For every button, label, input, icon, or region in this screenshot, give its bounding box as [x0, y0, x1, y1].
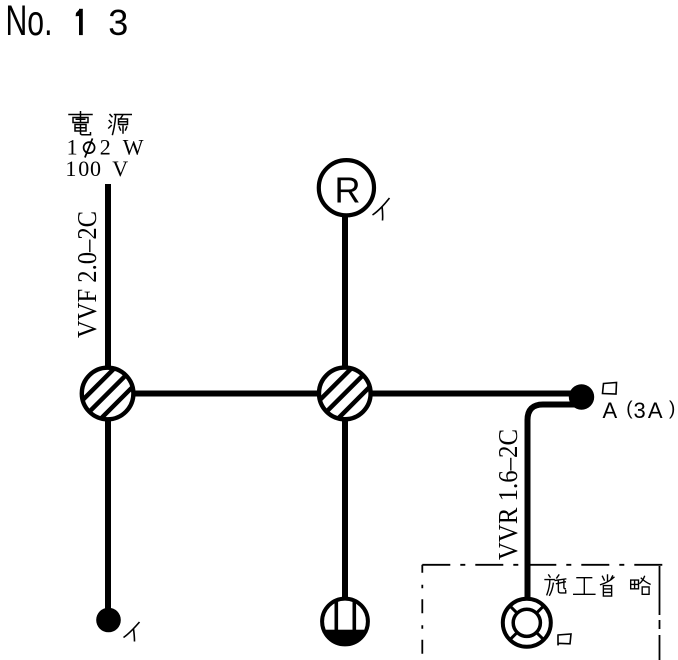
svg-text:3: 3 [108, 2, 128, 43]
svg-text:100V: 100V [65, 156, 128, 181]
svg-text:VVR 1.6–2C: VVR 1.6–2C [493, 429, 523, 560]
svg-text:R: R [335, 169, 361, 210]
svg-text:VVF 2.0–2C: VVF 2.0–2C [72, 211, 102, 338]
svg-text:No.: No. [6, 0, 53, 45]
svg-text:A3A: A3A [603, 398, 663, 423]
